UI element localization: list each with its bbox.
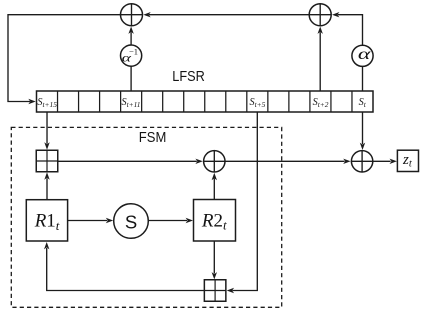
wire S_t cell top to alpha — [362, 66, 364, 91]
wire XOR X3 to XOR X4 — [225, 159, 351, 164]
wire alpha^-1 to XOR X1 — [128, 27, 133, 46]
wire XOR X4 to z_t box — [373, 159, 397, 164]
wire R2 up to XOR X3 — [212, 173, 217, 200]
wire S_t+5 cell down to adder A2 — [227, 112, 258, 293]
FSM dashed boundary box — [11, 127, 281, 307]
cell label S_t+2 — [313, 97, 329, 109]
register R2 — [194, 200, 236, 242]
svg-text:St+11: St+11 — [122, 97, 141, 109]
svg-text:−1: −1 — [129, 46, 138, 56]
adder A1 (boxed plus, top-left of FSM) — [36, 150, 58, 172]
svg-text:LFSR: LFSR — [172, 68, 205, 85]
svg-text:α: α — [358, 46, 371, 63]
XOR X3 (inside FSM) — [204, 151, 225, 172]
register R1 — [26, 200, 67, 241]
svg-text:St+15: St+15 — [37, 97, 57, 109]
wire S_t+11 cell top to alpha^-1 — [130, 66, 132, 91]
wire S_t cell down to XOR X4 — [360, 112, 365, 150]
wire adder A2 to R1 (feedback) — [44, 242, 204, 291]
cell label S_t+15 — [37, 97, 57, 109]
cell label S_t+5 — [250, 97, 266, 109]
svg-text:S: S — [125, 212, 137, 233]
multiplier alpha — [352, 45, 373, 66]
multiplier alpha^-1 — [121, 45, 142, 66]
S-box circle S — [114, 204, 149, 239]
svg-text:St: St — [359, 97, 367, 109]
wire R2 down to adder A2 — [212, 241, 217, 279]
label LFSR — [172, 68, 205, 85]
wire S_t+2 cell top to XOR X2 — [318, 27, 323, 92]
svg-text:FSM: FSM — [139, 129, 167, 146]
svg-text:R2t: R2t — [201, 210, 227, 232]
cell label S_t+11 — [122, 97, 141, 109]
label FSM — [139, 129, 167, 146]
cell label S_t — [359, 97, 367, 109]
adder A2 (boxed plus, bottom of FSM) — [204, 280, 226, 302]
svg-text:St+5: St+5 — [250, 97, 266, 109]
output box z_t — [397, 150, 418, 171]
XOR X4 (keystream output xor) — [351, 151, 372, 172]
svg-text:zt: zt — [402, 152, 413, 170]
svg-text:St+2: St+2 — [313, 97, 329, 109]
wire adder A1 to XOR X3 — [58, 159, 203, 164]
wire: feedback from XOR X1 to LFSR input — [8, 15, 121, 105]
wire S-box to R2 — [148, 218, 193, 223]
wire R1 to S-box — [68, 218, 114, 223]
wire S_t+15 cell down to adder A1 — [44, 112, 49, 150]
LFSR shift register (16 cells) — [37, 91, 374, 112]
wire from XOR X2 to XOR X1 — [143, 12, 309, 17]
svg-text:R1t: R1t — [34, 211, 60, 233]
XOR X2 (top-right) — [309, 4, 331, 26]
wire R1 up to adder A1 — [44, 172, 49, 200]
XOR X1 (top-left) — [121, 4, 143, 26]
wire from alpha to XOR X2 — [332, 12, 363, 45]
